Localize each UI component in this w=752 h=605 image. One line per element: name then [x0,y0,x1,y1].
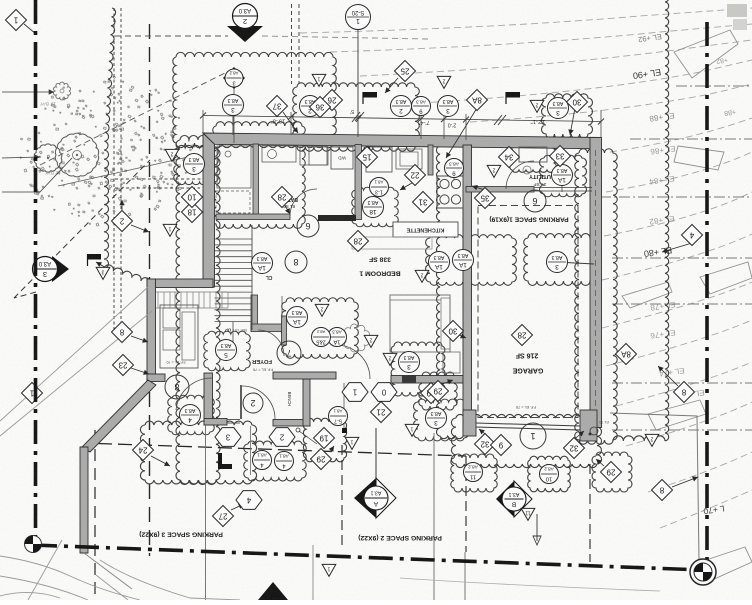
callout 2&amp;5/A8.2 [312,328,331,347]
room circle 6 [524,190,546,212]
callout 9/A8.3 [445,159,464,178]
tree 12ft bay A [34,144,62,172]
garage east wall [590,138,602,428]
keynote diamond 27 [213,506,234,527]
black post mark [342,428,347,433]
door arc utility [506,161,534,189]
witness lines [202,110,204,133]
cloud cs7 [168,395,215,435]
easement fine dashed verticals [113,8,115,332]
foyer closet west wall [251,295,258,330]
callout 3/A8.3 [184,154,205,175]
keynote diamond 15 [357,147,378,168]
fence lines right [676,85,752,87]
cloud cs11 [174,145,219,184]
keynote diamond 1 [6,10,27,31]
revision triangle 11 [521,508,535,520]
parking divider P3/P2 [341,445,343,545]
utility fixtures [519,147,547,162]
revision triangle 2 [437,76,451,88]
callout 3/A8.3 [426,408,447,429]
revision cloud bath [213,122,305,229]
keynote diamond 24 [133,440,154,461]
keynote diamond 35 [475,188,496,209]
callout 3/A8.3 [399,352,420,373]
cloud cs16 [244,441,306,481]
revision cloud garage west band [436,144,466,439]
house south wall east segment [391,376,467,384]
arrow below B marker [536,514,538,541]
garage door jamb west [463,410,476,436]
door arc foyer closet [258,330,284,356]
corner stamp [727,4,747,17]
leader lines [385,78,398,93]
keynote diamond 28 [512,325,533,346]
dimension line [203,116,601,122]
kitchenette label box [393,222,458,237]
property line west [34,0,38,543]
closet wall right of laundry [428,145,433,175]
diagonal retaining wall [82,380,156,452]
door arc wing [176,378,212,410]
kitchen appliances [366,147,392,172]
revision triangle 2 [315,304,329,316]
callout 1A/A8.3 [252,253,273,274]
callout 3/A8.3 [547,252,568,273]
callout 4/A8.1 [275,452,294,471]
vegetation speckles [90,176,92,178]
parking divider P1 east [589,464,591,562]
callout 1A/A8.3 [453,250,474,271]
keynote diamond 32 [564,438,585,459]
cloud cs1 [542,94,593,138]
cloud cs14 [391,342,445,396]
keynote diamond 22 [405,165,426,186]
easement fine dashed horizontals [115,178,202,180]
callout 1A/A8.3 [552,165,573,186]
room circle 8 [165,375,189,399]
revision triangle 1 [405,424,419,436]
revision cloud bottom-left [140,421,256,484]
bath east interior wall [355,145,362,220]
north exterior wall [203,133,601,149]
cloud cs2 [524,234,595,286]
cloud cs10 [419,372,457,410]
black diamond behind 3/A8.2 [223,67,245,89]
keynote diamond 8 [674,382,695,403]
survey point se [690,559,716,585]
revision triangle 2 [165,149,179,161]
property line south [33,545,703,570]
keynote diamond 32 [475,434,496,455]
keynote diamond 29 [601,462,622,483]
keynote diamond 25 [395,61,416,82]
keynote diamond 28 [272,187,293,208]
window hexagon 4 [236,491,262,510]
callout 5/A8.3 [216,340,237,361]
kitchen south dark wall [318,215,356,221]
callout 1A/A8.3 [429,252,450,273]
revision triangle 3 [96,267,110,279]
revision triangle 2 [364,335,378,347]
callout 1A/A8.3 [328,328,347,347]
bath south wall west part [216,214,290,220]
cloud cs8 [540,155,587,197]
tree small 10ft bay [53,82,70,100]
revision triangle 1 [322,564,336,576]
keynote diamond 34 [499,147,520,168]
keynote diamond 31 [413,192,434,213]
revision triangle 1 [345,437,359,449]
parking boundary dashed top [98,444,466,457]
flag marker b [506,92,520,98]
revision triangle 1 [312,74,326,86]
west exterior wall [203,133,215,287]
keynote diamond 33 [550,146,571,167]
callout 1-3/A8.1 [370,178,389,197]
keynote diamond 26 [322,90,343,111]
callout 1A/A8.3 [287,307,308,328]
driveway diagonals upper wing [0,287,148,421]
section marker 2/A3.0 [227,26,263,42]
callout 4/A8.1 [253,451,272,470]
callout 2/A8.3 [300,96,321,117]
window seat back lines [157,292,159,308]
fence corner bottom right [610,413,699,560]
revision triangle 2 [530,100,544,112]
indoor plant [342,324,370,352]
keynote diamond 30 [567,92,588,113]
cloud cs12 [510,140,557,173]
callout 9/A8.3 [412,97,431,116]
cloud cs15 [414,399,469,441]
garage door jamb east [580,410,597,441]
callout 11/A8.2 [464,463,483,482]
revision triangle 2 [383,353,397,365]
setback long-dash vertical [149,24,151,556]
foyer closet south wall [251,324,285,332]
entry south wall [204,419,227,426]
bottom scribble [400,578,660,591]
dark jamb at garage [402,375,416,383]
keynote diamond 29 [421,383,442,404]
revision cloud garage east band [575,149,617,444]
keynote diamond 29 [428,381,449,402]
keynote diamond 28 [348,231,369,252]
terrain lines bottom-left [0,556,140,600]
dashed line to section cut [115,35,228,37]
callout 3/A8.2 [225,69,243,87]
door arc bath [290,189,317,216]
stove [437,176,463,208]
keynote diamond 19 [314,428,335,449]
keynote diamond 10 [182,187,203,208]
keynote diamond 8 [652,480,673,501]
keynote diamond 36 [310,97,331,118]
callout 3/A8.3 [438,96,459,117]
foyer closet stub [282,316,287,345]
laundry WD [331,147,353,169]
callout 1/S-20 [346,5,371,30]
revision cloud top-left [173,52,336,147]
bath fixtures [217,146,251,188]
revision triangle 2 [645,434,659,446]
flag marker a [363,92,377,98]
revision triangle 1 [163,224,177,236]
bedroom bed [390,295,450,352]
keynote diamond 23 [113,355,134,376]
garage parking dashed rect [478,206,578,418]
contour lines [300,8,752,33]
retaining wall vertical bottom-left [80,447,88,553]
cloud cs13 [303,418,346,462]
garage door lines [476,423,580,426]
dashed verticals at top center [291,4,293,84]
north arrow [258,582,288,600]
room circle 8 [285,251,307,273]
cloud cs5 [282,298,359,359]
revision triangle 2 [415,270,429,282]
stairs [215,238,253,240]
tree 12ft bay B [55,133,98,177]
entry west wall [204,373,213,425]
callout 3/A8.3 [548,98,569,119]
room circle 6 [297,215,319,237]
keynote diamond 8 [112,322,133,343]
property line east [705,22,709,570]
garage west wall [463,145,472,432]
section marker A/A3.1 [375,428,377,486]
section marker 3/A3.0 [52,256,69,282]
callout 4/A8.3 [180,405,201,426]
utility trench verticals [205,425,207,600]
bench east wall [303,379,310,426]
rock outcrops [674,30,738,78]
door arc front entry [242,386,275,419]
cloud cs3 [426,235,517,286]
revision cloud west wall band [176,136,220,485]
callout 3/A8.3 [223,95,244,116]
keynote diamond 18 [182,202,203,223]
diagonal sight dashed lines [14,160,150,298]
callout 18/A8.3 [363,197,384,218]
window hexagon 0 [371,383,397,402]
revision triangle 2 [487,165,501,177]
cloud cs4 [352,187,399,227]
callout 10/A8.2 [540,465,559,484]
wing built-in sofa [160,305,198,368]
door arc bedroom [336,345,370,379]
revision cloud long right band [665,0,669,441]
survey point sw [25,536,42,553]
keynote diamond 37 [267,96,288,117]
keynote diamond 30 [443,321,464,342]
cloud cs18 [528,456,571,492]
window hexagon 3 [215,428,241,447]
cloud cs6 [204,331,251,371]
keynote diamond 9 [491,435,512,456]
keynote diamond 1 [22,383,43,404]
keynote diamond 21 [371,402,392,423]
revision cloud top-mid [293,83,420,151]
keynote diamond 8A [467,90,488,111]
setback long-dash vertical lower left [94,430,96,600]
keynote diamond 8A [616,344,637,365]
callout 2/A8.3 [391,96,412,117]
tree leader arrows [2,91,54,93]
window hexagon 1 [342,383,368,402]
keynote diamond 2 [112,211,133,232]
house south wall west segment [273,372,336,379]
bench outer south wall [273,420,310,427]
keynote diamond 29 [311,449,332,470]
wing west wall [147,279,156,380]
revision cloud garage bottom [451,414,601,467]
section marker B/A3.1 [496,481,514,517]
revision cloud left tall edge [104,8,150,284]
keynote diamond 4 [682,225,703,246]
cloud cs9 [592,452,632,492]
thin leader to rev triangle [58,157,188,186]
utility south wall [466,187,534,193]
flag marker c [87,254,101,260]
window hexagon 2 [269,428,295,447]
room circle 1 [520,423,546,449]
wing north wall [147,279,213,288]
wing south wall [147,374,165,382]
callout 5-7/A8.1 [329,407,348,426]
room circle 7 [277,341,301,365]
parking P1 dashed west [465,456,467,552]
room circle 2 [243,393,263,413]
bath west interior wall [253,144,259,219]
cloud cs17 [451,454,497,492]
black L mark parking [218,453,232,469]
